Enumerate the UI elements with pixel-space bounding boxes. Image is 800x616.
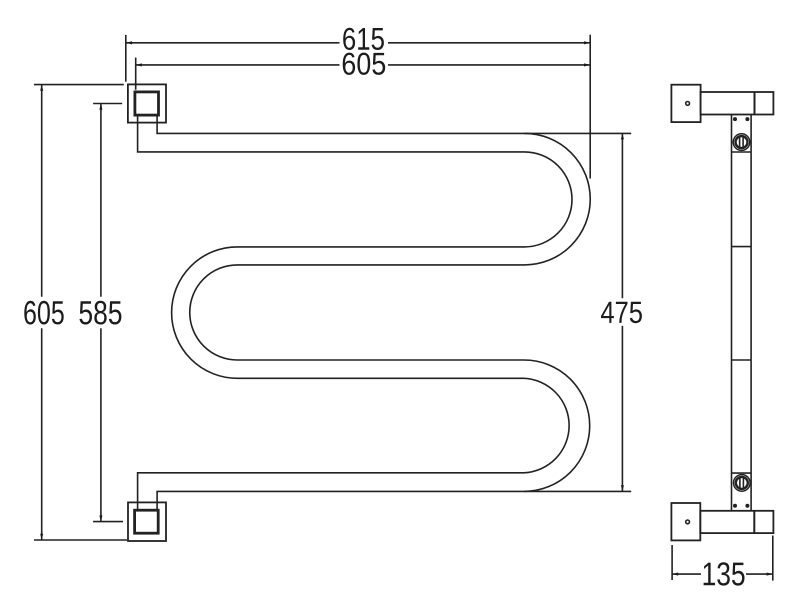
- side view: top pair of small screws: [734, 118, 736, 120]
- extension top of 585: [93, 103, 122, 105]
- side view: joint line at bar1 bottom: [732, 151, 752, 153]
- bottom bracket inner square: [135, 510, 159, 533]
- side view: bottom wall plate: [671, 503, 700, 540]
- dimension 615 left extension: [125, 35, 127, 82]
- dimension 605 left vertical line: [41, 85, 43, 540]
- label 605: [24, 301, 63, 325]
- tube outline outer boundary (front view serpentine): [157, 115, 590, 510]
- side view: top arm: [701, 92, 774, 115]
- side view: top wall plate: [671, 85, 700, 122]
- side view: top screw slot: [740, 136, 744, 148]
- dimension 615 line: [126, 42, 590, 44]
- side view: joint line at bar3 top: [732, 359, 752, 361]
- extension top of 605-left: [34, 84, 124, 86]
- label 605: [343, 53, 386, 75]
- label 475: [601, 302, 642, 324]
- bottom bracket outer plate: [128, 502, 166, 541]
- side view: bottom screw boss inner circle: [736, 477, 748, 489]
- arrowhead 615 right: [584, 41, 590, 44]
- label 135: [704, 562, 745, 585]
- arrowhead 605-left up: [40, 85, 43, 91]
- arrowhead 135 left: [672, 573, 678, 576]
- side view: bottom screw boss outer circle: [734, 475, 751, 492]
- side view: joint line at bar2 top: [732, 246, 752, 248]
- tube outline inner boundary (front view serpentine): [138, 115, 572, 510]
- extension bottom of 585: [93, 521, 123, 523]
- dimension 475 vertical line: [621, 133, 623, 491]
- dimension 585 vertical line: [100, 104, 102, 522]
- top bracket outer plate: [128, 84, 166, 122]
- arrowhead 475 down: [621, 485, 624, 491]
- top bracket inner square: [135, 92, 159, 115]
- extension bottom of 475: [524, 490, 631, 492]
- arrowhead 605-left down: [40, 534, 43, 540]
- arrowhead 475 up: [621, 133, 624, 139]
- arrowhead 135 right: [767, 573, 773, 576]
- side view: vertical tube: [732, 115, 752, 511]
- side view: top arm end-cap divider: [754, 92, 756, 115]
- arrowhead 605-top right: [584, 63, 590, 66]
- side view: bottom arm end-cap divider: [753, 511, 755, 533]
- dimension 135 line: [672, 573, 773, 575]
- side view: bottom screw slot: [740, 477, 744, 489]
- dimension 605 top extension: [135, 58, 137, 90]
- extension top of 475: [524, 132, 631, 134]
- side view: bottom arm: [700, 511, 773, 533]
- arrowhead 585 up: [99, 104, 102, 110]
- dimension 605 top line: [136, 64, 591, 66]
- side view: joint line at bar4 top: [732, 472, 752, 474]
- side view: top screw boss inner circle: [736, 136, 748, 148]
- side view: bottom plate screw hole: [686, 520, 690, 524]
- arrowhead 615 left: [126, 41, 132, 44]
- shared right extension for 615/605: [589, 35, 591, 179]
- side view: top plate screw hole: [686, 102, 690, 106]
- side view: bottom pair of small screws: [734, 505, 736, 507]
- side view: top screw boss outer circle: [733, 134, 750, 151]
- extension bottom of 605-left: [34, 539, 127, 541]
- arrowhead 585 down: [99, 515, 102, 521]
- dimension 135 right extension: [772, 536, 774, 581]
- arrowhead 605-top left: [136, 63, 142, 66]
- label 615: [343, 28, 384, 50]
- label 585: [80, 301, 122, 325]
- dimension 135 left extension: [671, 545, 673, 580]
